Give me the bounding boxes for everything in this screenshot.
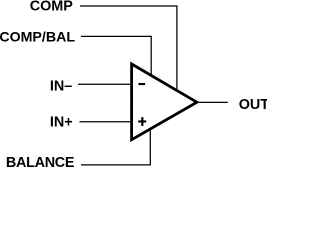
wire COMP/BAL to op-amp top (81, 36, 151, 75)
svg-text:COMP: COMP (30, 0, 74, 15)
wire OUT from op-amp output (197, 101, 228, 103)
svg-text:BALANCE: BALANCE (6, 155, 75, 171)
wire BALANCE to op-amp bottom (81, 129, 150, 165)
inverting input marker (minus) (139, 83, 146, 85)
svg-text:IN+: IN+ (50, 115, 73, 131)
op-amp U1 (132, 64, 197, 140)
wire IN- to inverting input (78, 83, 132, 85)
non-inverting input marker (plus) (138, 117, 146, 126)
svg-text:IN–: IN– (50, 79, 72, 95)
wire COMP to op-amp top (80, 6, 177, 91)
wire IN+ to non-inverting input (80, 121, 132, 123)
svg-text:OUT: OUT (239, 97, 267, 113)
svg-text:COMP/BAL: COMP/BAL (0, 29, 75, 45)
